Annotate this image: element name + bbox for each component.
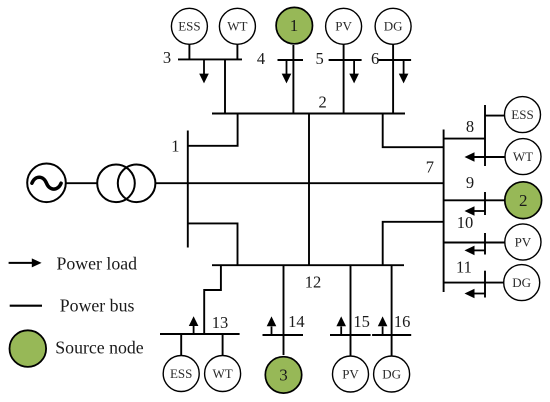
svg-text:WT: WT xyxy=(227,19,247,34)
load arrow bus16 xyxy=(378,316,388,335)
load arrow bus11 xyxy=(465,289,486,299)
load arrow bus9 xyxy=(465,206,486,216)
wire: bus7 to bus8 xyxy=(444,138,485,140)
bus 4 bar xyxy=(278,59,304,61)
svg-text:WT: WT xyxy=(513,149,533,164)
wire: bus2 to bus7 connector xyxy=(383,114,444,148)
wire: bus7 to PV bus10 xyxy=(444,242,505,244)
svg-text:WT: WT xyxy=(212,366,232,381)
wire: bus12 to bus7 connector xyxy=(383,222,444,265)
wire: source to transformer xyxy=(66,182,97,184)
source node 3 xyxy=(265,357,301,393)
load arrow bus3 xyxy=(199,59,209,83)
bus 8 bar xyxy=(484,105,486,166)
svg-text:16: 16 xyxy=(394,312,411,331)
ESS node bus3 xyxy=(171,8,207,44)
bus 13 bar xyxy=(160,333,240,335)
source node 2 xyxy=(505,182,542,219)
DG node bus16 xyxy=(374,356,410,392)
wire: bus3 to bus2 xyxy=(224,59,226,113)
bus 15 bar xyxy=(330,334,371,336)
svg-text:PV: PV xyxy=(342,366,359,381)
bus 3 bar xyxy=(178,58,242,60)
svg-text:9: 9 xyxy=(466,173,474,192)
svg-text:3: 3 xyxy=(163,48,171,67)
legend: power bus line xyxy=(10,295,135,315)
bus 5 bar xyxy=(329,59,362,61)
load arrow bus5 xyxy=(349,60,359,83)
wire: bus1 to bus12 connector xyxy=(188,223,238,265)
wire: bus7 to DG bus11 xyxy=(444,282,504,284)
load arrow bus14 xyxy=(267,316,277,335)
wire: PV stem bus5 to bus2 xyxy=(343,44,345,113)
bus 10 bar xyxy=(484,233,486,255)
bus 12 xyxy=(212,264,404,266)
PV node bus10 xyxy=(505,224,541,260)
load arrow bus13 xyxy=(189,316,199,334)
DG node bus6 xyxy=(375,8,411,44)
PV node bus15 xyxy=(333,356,369,392)
wire: bus12 to node3 stem xyxy=(283,265,285,355)
wire: bus12 to DG stem bus16 xyxy=(391,265,393,355)
WT node bus8 xyxy=(505,139,541,175)
load arrow bus8 xyxy=(465,152,475,162)
WT node bus3 xyxy=(219,8,255,44)
bus 1 xyxy=(187,131,189,248)
svg-text:ESS: ESS xyxy=(178,19,200,34)
source node 1 xyxy=(276,7,312,43)
wire: bus12 to bus13 zigzag xyxy=(204,265,221,334)
wire: ESS stem bus3 xyxy=(188,44,190,59)
svg-text:4: 4 xyxy=(257,49,265,68)
svg-text:1: 1 xyxy=(171,136,179,155)
svg-text:15: 15 xyxy=(353,312,370,331)
wire: bus12 to PV stem bus15 xyxy=(350,265,352,355)
WT node bus13 xyxy=(205,356,241,392)
svg-text:6: 6 xyxy=(371,49,379,68)
svg-text:12: 12 xyxy=(305,273,322,292)
bus 14 bar xyxy=(263,334,304,336)
wire: bus8 ESS stem xyxy=(485,115,504,117)
wire: WT stem bus13 xyxy=(222,334,224,355)
wire: bus2 to bus12 center tie xyxy=(308,114,310,266)
PV node bus5 xyxy=(326,8,362,44)
svg-text:14: 14 xyxy=(288,312,305,331)
bus 6 bar xyxy=(378,59,411,61)
svg-text:2: 2 xyxy=(519,191,528,210)
DG node bus11 xyxy=(504,265,540,301)
ESS node bus13 xyxy=(163,356,199,392)
ESS node bus8 xyxy=(505,97,541,133)
svg-text:5: 5 xyxy=(315,49,323,68)
wire: bus7 to node2 xyxy=(444,199,505,201)
svg-text:PV: PV xyxy=(515,234,532,249)
svg-text:3: 3 xyxy=(279,366,288,385)
svg-text:10: 10 xyxy=(457,213,474,232)
svg-text:ESS: ESS xyxy=(511,107,533,122)
wire: ESS stem bus13 xyxy=(180,334,182,355)
svg-text:2: 2 xyxy=(318,93,326,112)
svg-text:1: 1 xyxy=(290,16,299,35)
wire: bus2 to bus1 connector xyxy=(188,114,238,146)
bus 2 xyxy=(212,113,405,115)
transformer T1 xyxy=(97,165,155,203)
legend: power load arrow xyxy=(9,254,138,274)
load arrow bus4 xyxy=(282,60,292,83)
svg-text:7: 7 xyxy=(426,157,434,176)
wire: main feeder bus1-bus7 xyxy=(155,182,443,184)
load arrow bus10 xyxy=(465,246,486,256)
bus 11 bar xyxy=(484,271,486,298)
svg-text:DG: DG xyxy=(384,19,403,34)
wire: DG stem bus6 to bus2 xyxy=(392,44,394,113)
svg-text:ESS: ESS xyxy=(170,366,192,381)
svg-text:Power load: Power load xyxy=(57,254,138,274)
svg-text:DG: DG xyxy=(382,366,401,381)
bus 7 xyxy=(443,130,445,293)
svg-text:13: 13 xyxy=(212,313,229,332)
wire: bus8 WT stem xyxy=(474,156,505,158)
svg-text:Power bus: Power bus xyxy=(60,295,135,315)
svg-text:8: 8 xyxy=(466,117,474,136)
legend: source node symbol xyxy=(10,330,144,367)
svg-text:DG: DG xyxy=(512,275,531,290)
wire: WT stem bus3 xyxy=(236,44,238,59)
load arrow bus15 xyxy=(336,316,346,335)
bus 16 bar xyxy=(372,334,411,336)
svg-text:Source node: Source node xyxy=(55,338,143,358)
source G1 xyxy=(27,164,66,203)
bus 9 bar xyxy=(484,192,486,215)
svg-text:11: 11 xyxy=(456,258,472,277)
wire: node1 stem to bus2 xyxy=(292,45,294,114)
load arrow bus6 xyxy=(399,60,409,83)
svg-text:PV: PV xyxy=(335,19,352,34)
